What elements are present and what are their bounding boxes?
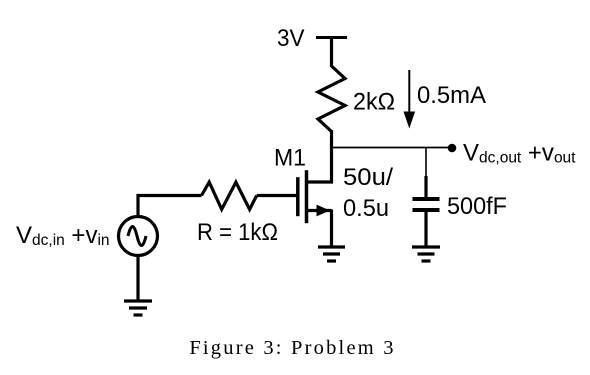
svg-text:M1: M1 bbox=[274, 145, 306, 172]
svg-text:3V: 3V bbox=[277, 25, 305, 52]
svg-text:R = 1kΩ: R = 1kΩ bbox=[197, 219, 278, 246]
svg-text:500fF: 500fF bbox=[447, 193, 507, 220]
svg-text:0.5u: 0.5u bbox=[343, 195, 389, 222]
svg-text:2kΩ: 2kΩ bbox=[353, 89, 395, 116]
svg-text:50u/: 50u/ bbox=[343, 164, 393, 191]
svg-text:0.5mA: 0.5mA bbox=[417, 82, 486, 109]
svg-text:Figure 3: Problem 3: Figure 3: Problem 3 bbox=[189, 337, 395, 359]
